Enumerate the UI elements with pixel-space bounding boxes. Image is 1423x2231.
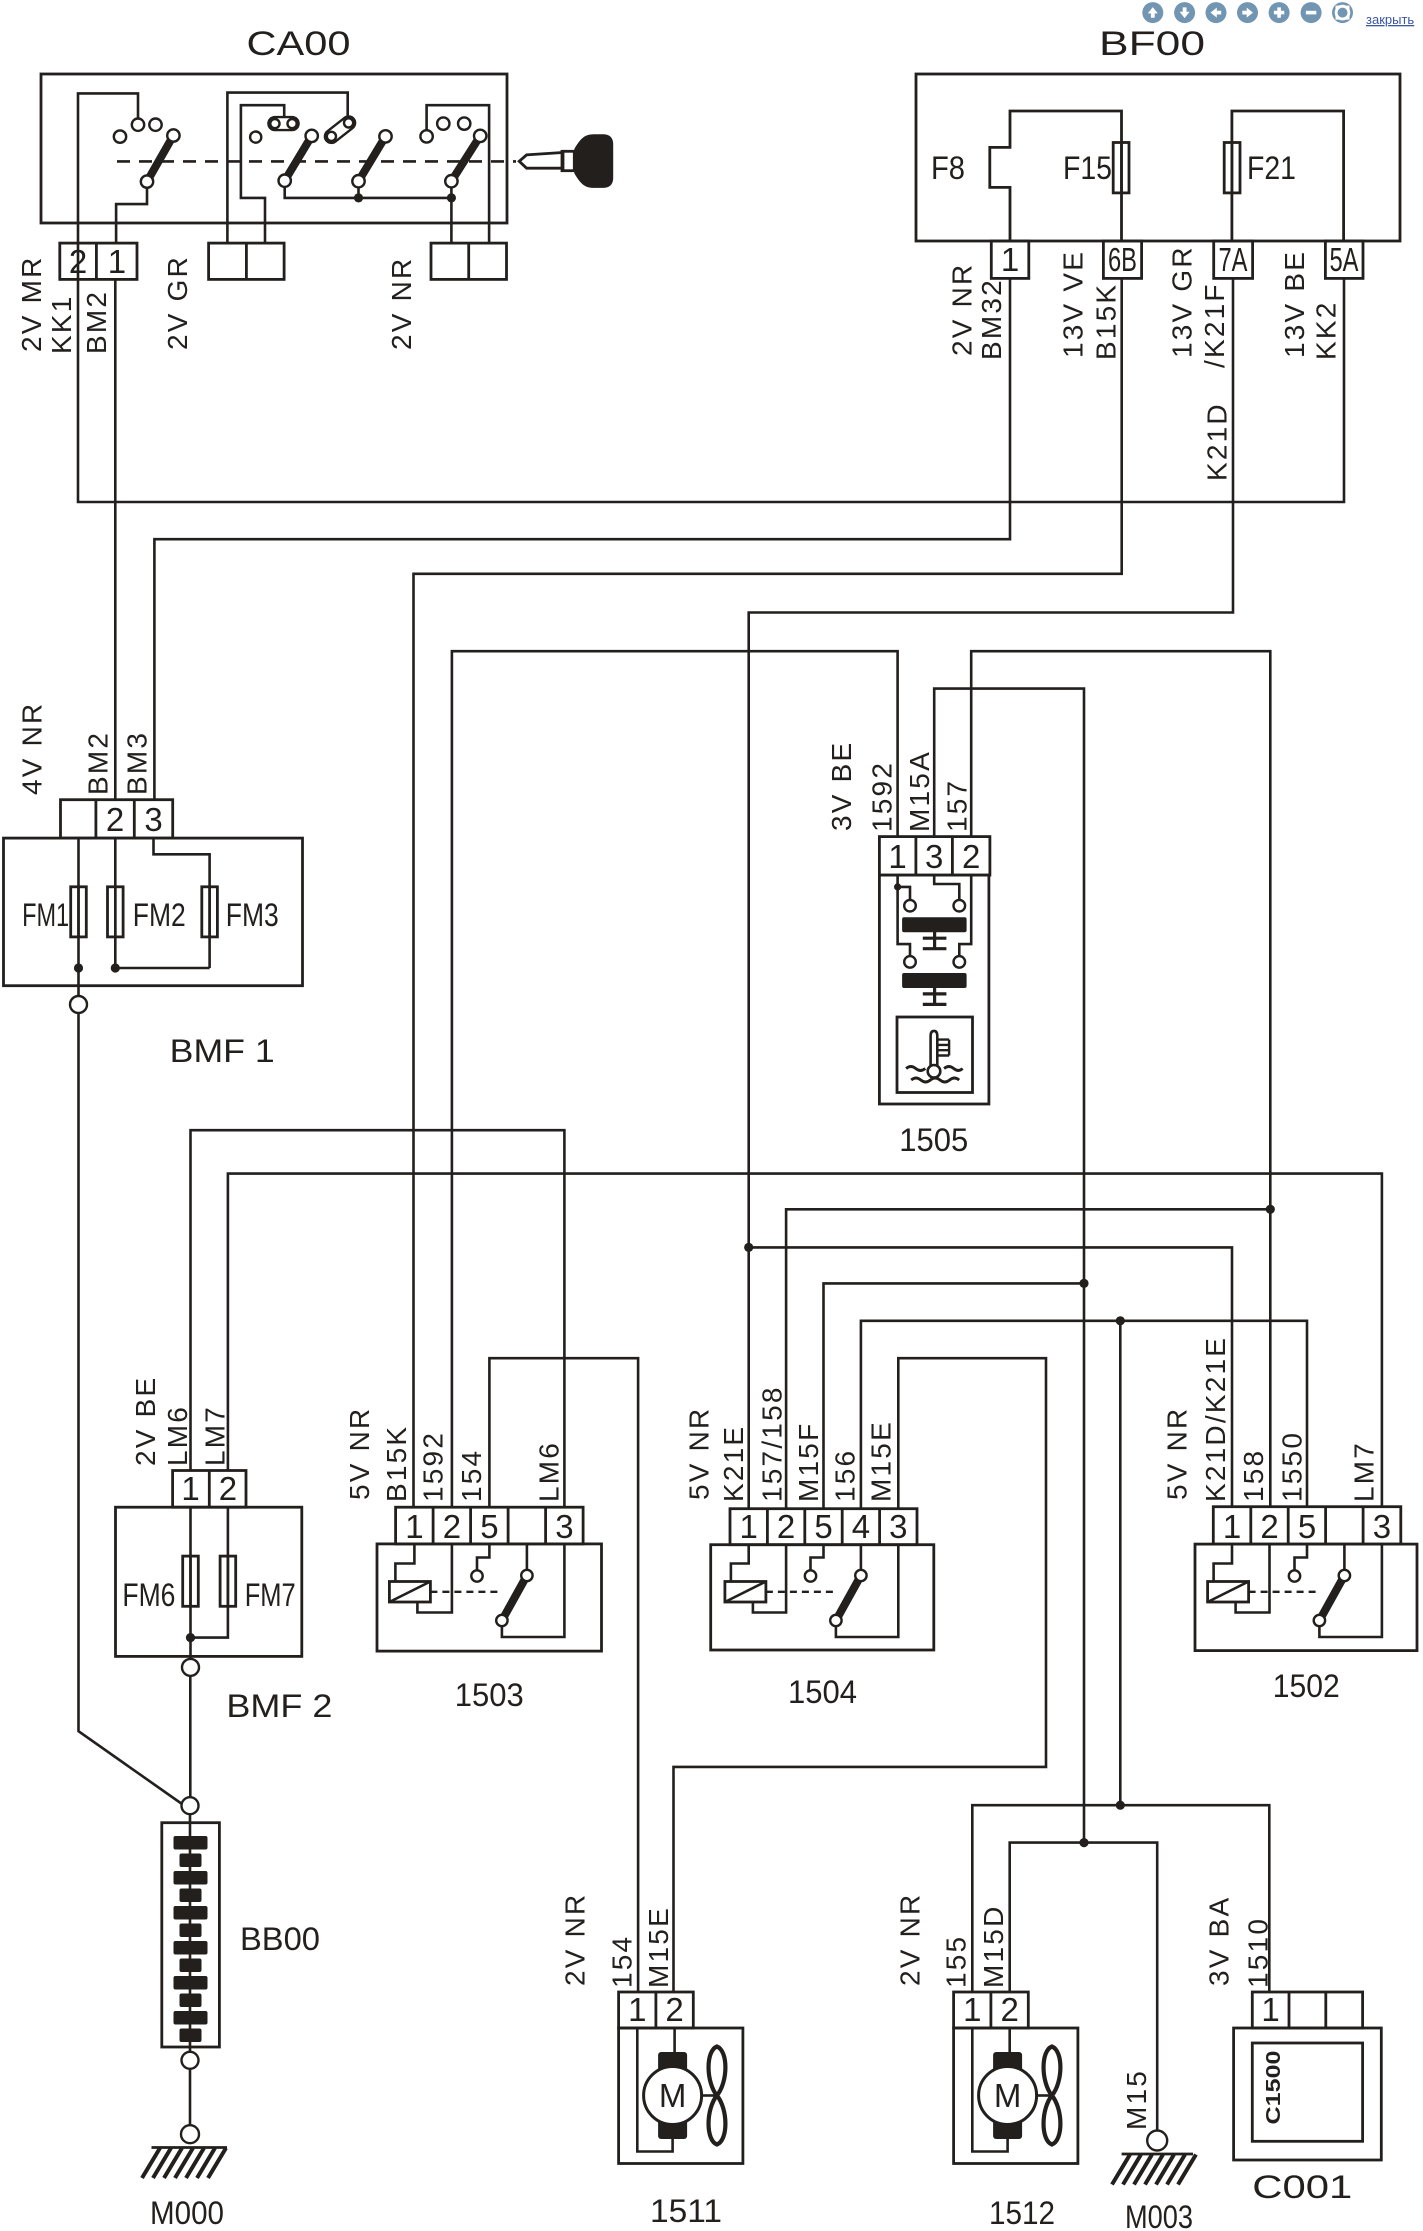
- switch group 3 contact C: [458, 117, 470, 129]
- svg-text:1511: 1511: [650, 2193, 722, 2229]
- toolbar pan-up icon: [1142, 2, 1163, 23]
- switch group 2 arm a: [285, 136, 312, 181]
- rotated wire labels BMF1: [17, 702, 153, 795]
- rotated wire labels 1505: [826, 741, 972, 832]
- wire net LM7 (BMF2 pin2 to 1502 pin3): [228, 1174, 1382, 1507]
- relay 1503 coil circuit: [395, 1544, 452, 1613]
- toolbar pan-left icon: [1206, 2, 1227, 23]
- switch group 1 output wire to pin 1: [116, 188, 147, 223]
- svg-text:157/158: 157/158: [756, 1385, 787, 1502]
- svg-text:FM3: FM3: [226, 897, 279, 933]
- svg-text:K21D: K21D: [1201, 402, 1232, 481]
- battery feed wire to BB00: [79, 1013, 188, 1808]
- fan motor 1512 box: [954, 2028, 1078, 2164]
- relay 1502 body: [1195, 1544, 1417, 1651]
- BF00 inner module right: [1232, 111, 1344, 241]
- ground M003: [1112, 2131, 1196, 2185]
- svg-text:1592: 1592: [866, 761, 897, 832]
- ignition switch CA00 box: [41, 74, 507, 223]
- fuse FM7: [220, 1556, 236, 1606]
- svg-text:1: 1: [1001, 241, 1019, 278]
- wire net LM6 (BMF2 pin1 to 1503 pin3): [191, 1130, 565, 1507]
- svg-text:3: 3: [925, 838, 943, 875]
- connector C001 pin row: [1252, 1991, 1362, 2028]
- 1505 contact pair 1: [904, 900, 916, 912]
- wire net BM3/BM32 (BF00 pin1 to BMF1 pin3): [154, 278, 1010, 799]
- svg-text:FM7: FM7: [245, 1577, 296, 1613]
- BF00 pin 7A: [1214, 241, 1253, 278]
- relay 1502 contact arm: [1343, 1544, 1346, 1569]
- fuse unit BMF2 box: [116, 1507, 302, 1656]
- relay 1503 arm output: [502, 1544, 565, 1637]
- svg-text:3: 3: [1373, 1508, 1391, 1545]
- battery BB00 bottom terminal circle: [182, 2052, 199, 2069]
- junction M15: [1079, 1838, 1088, 1847]
- junction in BMF2: [186, 1633, 195, 1642]
- 1505 body: [879, 875, 989, 1104]
- 1505 thermal actuator 1: [923, 932, 947, 949]
- pin riser wires CA00: [78, 223, 489, 243]
- svg-text:M: M: [994, 2077, 1022, 2114]
- svg-text:BM32: BM32: [976, 278, 1007, 360]
- svg-text:1550: 1550: [1277, 1431, 1308, 1502]
- fuse FM6: [183, 1556, 199, 1606]
- svg-text:CA00: CA00: [247, 25, 351, 63]
- rotated wire labels motor 1512: [894, 1893, 1009, 1988]
- svg-text:F8: F8: [931, 150, 965, 186]
- svg-text:5V NR: 5V NR: [684, 1407, 715, 1500]
- fuse F15: [1113, 143, 1129, 193]
- svg-text:5V NR: 5V NR: [1162, 1407, 1193, 1500]
- BMF1 internal wires: [79, 838, 210, 996]
- relay 1503 fixed contact: [477, 1544, 489, 1570]
- 1512 internal wires: [972, 2028, 1009, 2152]
- toolbar fullscreen icon: [1332, 2, 1353, 23]
- battery BB00 center conductor: [189, 1814, 192, 2052]
- svg-text:3V BE: 3V BE: [826, 741, 857, 831]
- junction 157/158: [1266, 1205, 1275, 1214]
- relay 1503 body: [377, 1544, 602, 1651]
- relay 1502 dashed link: [1249, 1591, 1318, 1593]
- svg-text:KK1: KK1: [46, 294, 77, 354]
- wire net 1592 (relay 1503 pin2 to 1505 pin1): [452, 651, 898, 1507]
- relay 1504 arm output: [836, 1545, 898, 1637]
- BF00 inner module with F8 notch: [990, 111, 1122, 241]
- svg-text:5V NR: 5V NR: [344, 1407, 375, 1500]
- ground M000: [142, 2125, 227, 2178]
- BF00 pin 6B: [1103, 241, 1141, 278]
- svg-text:2: 2: [665, 1991, 683, 2028]
- svg-text:BB00: BB00: [240, 1921, 320, 1957]
- junction: [447, 193, 456, 202]
- svg-text:1510: 1510: [1243, 1917, 1274, 1988]
- svg-text:1505: 1505: [899, 1122, 968, 1158]
- wire net 154 (1503 pin5 to motor 1511 pin1): [489, 1358, 638, 1992]
- junction K21D: [744, 1243, 753, 1252]
- fan motor 1511 pin row: [619, 1991, 694, 2028]
- BMF1 output connector circle: [70, 996, 87, 1013]
- battery BB00 plates: [174, 1836, 208, 2042]
- relay 1503 dashed link: [430, 1591, 500, 1593]
- wire net 157/158 (1505 pin2 to 1502 pin2, branch 1504 pin2): [786, 651, 1270, 1508]
- svg-text:13V BE: 13V BE: [1279, 250, 1310, 358]
- svg-text:5: 5: [814, 1508, 832, 1545]
- toolbar zoom-in icon: [1269, 2, 1290, 23]
- connector C001 outer box: [1234, 2028, 1382, 2160]
- svg-text:закрыть: закрыть: [1366, 12, 1414, 27]
- svg-text:M15A: M15A: [904, 750, 935, 832]
- svg-text:2: 2: [1001, 1991, 1019, 2028]
- svg-text:1: 1: [628, 1991, 646, 2028]
- switch group 2 arm b: [359, 136, 386, 181]
- 1505 pin1 internal wire: [898, 875, 910, 956]
- relay 1502 fixed contact: [1295, 1544, 1308, 1569]
- switch group 2 oval contact: [270, 119, 296, 128]
- svg-text:BM3: BM3: [121, 731, 152, 795]
- wire net M15 ground (1512 pin2 to M003): [1010, 1843, 1157, 2131]
- svg-text:M15: M15: [1121, 2069, 1152, 2130]
- fan motor 1511 box: [619, 2028, 743, 2164]
- relay 1504 body: [711, 1545, 934, 1650]
- svg-text:155: 155: [941, 1935, 972, 1988]
- svg-text:2V NR: 2V NR: [947, 263, 978, 356]
- toolbar pan-right icon: [1237, 2, 1258, 23]
- relay 1503 pin row: [396, 1507, 583, 1545]
- svg-text:K21E: K21E: [718, 1425, 749, 1502]
- svg-text:BMF 2: BMF 2: [226, 1688, 332, 1724]
- svg-text:KK2: KK2: [1310, 300, 1341, 360]
- svg-text:1502: 1502: [1273, 1668, 1340, 1704]
- relay 1502 pin row: [1213, 1507, 1401, 1545]
- rotated wire labels motor 1511: [559, 1893, 674, 1988]
- wire net M15E (1504 pin3 to motor 1511 pin2): [674, 1358, 1047, 1992]
- fuse unit BMF1 box: [4, 838, 303, 986]
- relay 1502 coil circuit: [1214, 1544, 1270, 1612]
- svg-text:2: 2: [962, 838, 980, 875]
- wire net B15K (BF00 6B to relay 1503 pin1): [414, 278, 1122, 1507]
- rotated wire labels BF00: [947, 245, 1342, 481]
- svg-text:4: 4: [852, 1508, 870, 1545]
- svg-text:C1500: C1500: [1263, 2051, 1285, 2125]
- connector pins 2,1 of CA00: [60, 243, 137, 280]
- relay 1504 pin row: [730, 1508, 917, 1545]
- relay 1504 coil circuit: [731, 1545, 786, 1613]
- wire battery to ground M000: [189, 2069, 192, 2126]
- svg-text:1: 1: [1261, 1991, 1279, 2028]
- 1505 switch bar 1: [902, 917, 967, 932]
- svg-text:M15F: M15F: [793, 1422, 824, 1502]
- junction 1550 branch: [1116, 1801, 1125, 1810]
- switch group 1 contact A: [114, 130, 126, 142]
- svg-text:1: 1: [405, 1508, 423, 1545]
- fuse FM2: [108, 887, 124, 937]
- svg-text:3: 3: [144, 801, 162, 838]
- svg-text:2V NR: 2V NR: [894, 1893, 925, 1986]
- relay 1504 fixed contact: [811, 1545, 824, 1570]
- fuse FM3: [202, 887, 218, 937]
- rotated wire labels relay 1504: [684, 1385, 897, 1502]
- wire net K21D/K21F (BF00 7A to relays 1504,1502 pin1): [749, 278, 1233, 1508]
- svg-text:1: 1: [181, 1470, 199, 1507]
- 1505 pin2 internal wire: [959, 875, 971, 956]
- 1511 internal wires: [637, 2028, 674, 2152]
- switch group 2 wire to tilted contact: [227, 93, 347, 223]
- svg-text:BF00: BF00: [1099, 25, 1205, 63]
- svg-text:2: 2: [443, 1508, 461, 1545]
- toolbar zoom-out icon: [1301, 2, 1322, 23]
- junctions in BMF1: [74, 963, 83, 972]
- svg-text:LM7: LM7: [1349, 1441, 1380, 1502]
- relay 1502 arm output: [1319, 1544, 1382, 1637]
- svg-text:1: 1: [108, 243, 126, 280]
- switch group 2 contact A: [250, 132, 261, 143]
- fuse box BF00 outer box: [916, 74, 1400, 241]
- svg-text:2V MR: 2V MR: [16, 255, 47, 352]
- svg-text:2: 2: [219, 1470, 237, 1507]
- svg-text:6B: 6B: [1108, 241, 1137, 278]
- 1505 thermal actuator 2: [923, 988, 947, 1005]
- relay 1504 contact arm: [860, 1545, 863, 1570]
- svg-text:3: 3: [889, 1508, 907, 1545]
- dashed actuation line: [117, 160, 516, 163]
- fan motor 1512 pin row: [954, 1991, 1029, 2028]
- BF00 pin 1: [991, 241, 1029, 278]
- rotated wire labels relay 1502: [1162, 1336, 1380, 1502]
- connector pins (2V GR) of CA00: [209, 243, 285, 279]
- 1505 coolant temperature symbol box: [897, 1017, 973, 1093]
- switch group 3 contact A: [420, 130, 432, 142]
- rotated wire labels relay 1503: [344, 1407, 564, 1502]
- switch group 1 arm: [147, 136, 173, 182]
- svg-text:1504: 1504: [788, 1674, 857, 1710]
- 1505 switch bar 2: [902, 973, 967, 988]
- junction 156: [1116, 1316, 1125, 1325]
- 1505 pin3 internal wire: [934, 875, 959, 900]
- svg-text:1: 1: [888, 838, 906, 875]
- svg-text:F15: F15: [1063, 150, 1112, 186]
- 1512 motor brushes: [993, 2052, 1022, 2074]
- switch group 2 tilted contact: [327, 118, 353, 141]
- svg-text:FM6: FM6: [122, 1577, 175, 1613]
- relay 1503 contact arm: [526, 1544, 529, 1570]
- svg-text:1512: 1512: [989, 2195, 1055, 2231]
- switch group 3 wire to contacts: [427, 105, 490, 223]
- BMF2 internal wires: [191, 1507, 228, 1659]
- svg-text:M000: M000: [150, 2195, 224, 2231]
- rotated wire labels CA00: [16, 255, 417, 354]
- svg-text:BM2: BM2: [83, 731, 114, 795]
- svg-text:2: 2: [777, 1508, 795, 1545]
- thermometer icon: [906, 1031, 963, 1082]
- svg-text:M: M: [659, 2077, 687, 2114]
- svg-text:13V GR: 13V GR: [1167, 245, 1198, 358]
- svg-text:3: 3: [555, 1508, 573, 1545]
- svg-text:4V NR: 4V NR: [17, 702, 48, 795]
- junction M15A/M15F: [1079, 1279, 1088, 1288]
- switch group 1 contact B: [132, 119, 144, 131]
- svg-text:C001: C001: [1252, 2169, 1352, 2205]
- svg-text:5: 5: [1298, 1508, 1316, 1545]
- svg-text:FM1: FM1: [22, 897, 69, 933]
- battery BB00 top terminal circle: [182, 1797, 199, 1814]
- svg-text:1503: 1503: [455, 1677, 524, 1713]
- 1511 motor circle: [644, 2067, 702, 2125]
- rotated wire labels C001: [1204, 1896, 1274, 1988]
- svg-text:LM6: LM6: [162, 1405, 193, 1466]
- wire net 156/1550 (1504 pin4 to 1502 pin5, branch down): [861, 1321, 1307, 1805]
- svg-text:M15D: M15D: [978, 1905, 1009, 1989]
- svg-text:/K21F: /K21F: [1199, 282, 1230, 368]
- svg-text:2V BE: 2V BE: [130, 1376, 161, 1466]
- thermal switch 1505 pin row: [879, 837, 990, 876]
- svg-text:1: 1: [1223, 1508, 1241, 1545]
- svg-text:K21D/K21E: K21D/K21E: [1200, 1336, 1231, 1502]
- switch group 1 wire (pin 2 to contact): [78, 93, 138, 223]
- switch group 3 arm: [451, 136, 480, 181]
- svg-text:2V NR: 2V NR: [386, 257, 417, 350]
- svg-text:3V BA: 3V BA: [1204, 1896, 1235, 1986]
- svg-text:B15K: B15K: [1090, 283, 1121, 360]
- wire net KK2 (CA00 pin2 to BF00 5A): [78, 243, 1344, 502]
- 1512 motor circle: [979, 2067, 1037, 2125]
- BF00 pin 5A: [1325, 241, 1363, 278]
- svg-text:1592: 1592: [417, 1431, 448, 1502]
- battery BB00 box: [162, 1823, 220, 2047]
- junction: [354, 193, 363, 202]
- svg-text:M003: M003: [1125, 2199, 1193, 2231]
- svg-text:157: 157: [941, 779, 972, 832]
- BMF2 pin row: [173, 1470, 246, 1507]
- wire net 155/1510 (motor 1512 pin1 to connector C001 pin1): [972, 1805, 1269, 1992]
- svg-text:F21: F21: [1247, 150, 1296, 186]
- switch common bus wire: [285, 187, 452, 198]
- svg-text:LM6: LM6: [534, 1441, 565, 1502]
- svg-text:BMF 1: BMF 1: [170, 1033, 275, 1069]
- svg-text:154: 154: [456, 1449, 487, 1502]
- svg-text:13V VE: 13V VE: [1058, 250, 1089, 358]
- svg-text:2: 2: [106, 801, 124, 838]
- svg-text:FM2: FM2: [133, 897, 186, 933]
- svg-text:M15E: M15E: [643, 1906, 674, 1988]
- svg-text:158: 158: [1238, 1449, 1269, 1502]
- svg-text:2V GR: 2V GR: [162, 255, 193, 350]
- svg-text:5A: 5A: [1330, 241, 1359, 278]
- svg-text:154: 154: [606, 1935, 637, 1988]
- fuse F21: [1224, 143, 1240, 193]
- relay 1504 dashed link: [766, 1591, 834, 1593]
- switch group 2 wire to oval contact: [241, 105, 284, 223]
- connector C001 inner box: [1252, 2043, 1362, 2141]
- 1512 fan blades: [1037, 2094, 1052, 2097]
- svg-text:1: 1: [740, 1508, 758, 1545]
- 1511 fan blades: [702, 2094, 717, 2097]
- switch group 3 output wire: [450, 187, 453, 223]
- BMF2 output connector circle: [182, 1659, 199, 1676]
- svg-text:BM2: BM2: [81, 290, 112, 354]
- wire net BM2 (CA00 pin1 to BMF1 pin2): [114, 279, 117, 799]
- connector pins (2V NR) of CA00: [431, 243, 507, 279]
- switch group 1 contact C: [149, 119, 161, 131]
- svg-text:2V NR: 2V NR: [559, 1893, 590, 1986]
- rotated wire labels BMF2: [130, 1376, 230, 1466]
- fuse FM1: [71, 887, 87, 937]
- svg-text:1: 1: [963, 1991, 981, 2028]
- switch group 3 contact B: [437, 117, 449, 129]
- svg-text:2: 2: [1260, 1508, 1278, 1545]
- key symbol: [519, 134, 613, 188]
- wire net M15A (1505 pin3 to ground line, branch M15F 1504 pin5): [824, 689, 1085, 1843]
- wire BMF2 to battery: [189, 1676, 192, 1797]
- svg-text:5: 5: [480, 1508, 498, 1545]
- BMF1 pin row: [61, 800, 173, 838]
- toolbar pan-down icon: [1174, 2, 1195, 23]
- 1511 motor brushes: [658, 2052, 687, 2074]
- svg-text:M15E: M15E: [866, 1420, 897, 1502]
- svg-text:B15K: B15K: [381, 1425, 412, 1502]
- 1505 contact pair 2: [904, 956, 916, 968]
- svg-text:156: 156: [829, 1449, 860, 1502]
- svg-text:LM7: LM7: [199, 1405, 230, 1466]
- svg-text:7A: 7A: [1219, 241, 1248, 278]
